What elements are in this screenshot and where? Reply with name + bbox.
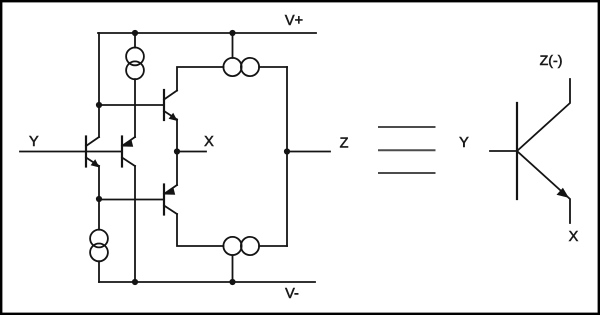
- svg-text:Y: Y: [459, 135, 469, 151]
- svg-text:Z: Z: [340, 136, 349, 152]
- wire Z stub: [287, 151, 330, 153]
- node (Q2 collector on V- rail): [132, 279, 138, 285]
- wire X node vertical (Q3 emitter to Q4 emitter): [176, 120, 178, 186]
- wire Q1 emitter to node A: [98, 166, 100, 199]
- node (I4 to V- rail): [229, 279, 235, 285]
- wire Z vertical: [286, 67, 288, 246]
- wire X branch with arrow: [517, 151, 570, 223]
- wire V+ top rail: [98, 32, 316, 34]
- node A (Q1 emitter / I2 / Q4 base): [96, 196, 102, 202]
- current source I4 (bottom right): [223, 237, 287, 282]
- transistor Q1 (NPN): [86, 137, 100, 168]
- transistor Q2 (PNP): [122, 137, 135, 167]
- svg-text:Y: Y: [29, 134, 39, 150]
- node (I1 to V+ rail): [132, 30, 138, 36]
- wire Q3 collector to I3: [177, 67, 224, 91]
- wire Q3 base: [99, 104, 163, 106]
- svg-text:V+: V+: [285, 13, 303, 29]
- current source I2 (bottom left): [90, 199, 108, 282]
- transistor Q4 (PNP): [164, 185, 177, 215]
- equivalence sign: [378, 127, 436, 173]
- wire V- bottom rail: [99, 281, 315, 283]
- svg-text:X: X: [204, 134, 214, 150]
- wire Q4 base: [99, 199, 163, 201]
- svg-text:X: X: [569, 229, 579, 245]
- node X: [174, 148, 180, 154]
- current source I1 (top left): [126, 33, 144, 137]
- wire Q2 collector to V-: [134, 166, 136, 282]
- wire X stub: [177, 151, 206, 153]
- wire left vertical (V+ to Q1 collector): [98, 33, 100, 137]
- node Z: [284, 148, 290, 154]
- wire Y lead (symbol): [490, 150, 517, 152]
- wire Q4 collector to I4: [177, 214, 223, 246]
- op-amp U1 (CCII- symbol) bar: [516, 103, 518, 199]
- node (I3 to V+ rail): [229, 30, 235, 36]
- wire Y input: [20, 151, 121, 153]
- svg-text:Z(-): Z(-): [540, 53, 563, 69]
- wire Z(-) branch: [517, 79, 570, 151]
- current source I3 (top right): [223, 33, 287, 76]
- svg-text:V-: V-: [285, 286, 299, 302]
- transistor Q3 (NPN): [164, 90, 178, 121]
- node (Q1 collector / Q3 base junction): [96, 102, 102, 108]
